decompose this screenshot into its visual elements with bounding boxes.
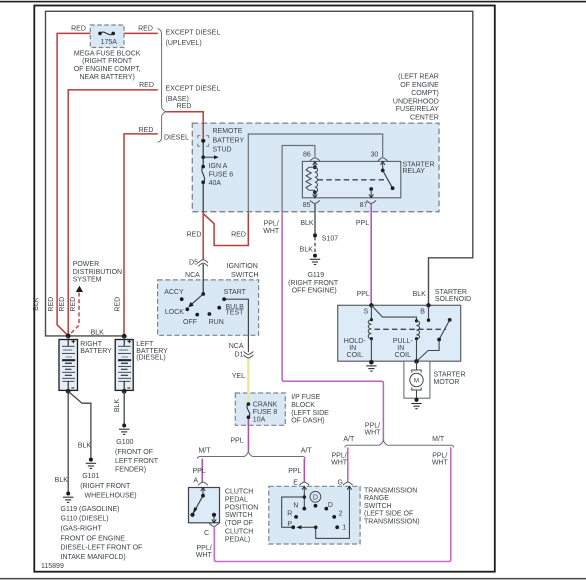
- wire PPL crank fuse to first split apex: [247, 417, 249, 451]
- solenoid actuator dashed link: [375, 328, 447, 330]
- transmission range switch box: [269, 486, 360, 544]
- svg-text:LOCK: LOCK: [165, 309, 184, 316]
- svg-text:ACCY: ACCY: [164, 289, 184, 296]
- motor ground junction: [414, 398, 418, 402]
- trans switch terminal E: [300, 482, 309, 510]
- wire GRY relay 30 feed inside box: [248, 134, 382, 214]
- svg-text:A: A: [193, 477, 198, 484]
- svg-text:FRONT OF ENGINE: FRONT OF ENGINE: [61, 535, 126, 542]
- wire RED fuse output below box to D5: [202, 212, 204, 259]
- svg-text:SWITCH: SWITCH: [225, 512, 253, 519]
- wire PPL first split to clutch A: [201, 459, 203, 482]
- wire BLK relay 85 to S107: [314, 204, 316, 235]
- starter motor symbol: [410, 361, 423, 399]
- svg-text:G101: G101: [82, 473, 99, 480]
- svg-text:BLK: BLK: [300, 220, 314, 227]
- svg-text:RUN: RUN: [209, 319, 224, 326]
- wire PPL relay 87 to solenoid S: [370, 204, 372, 305]
- wire RED brace output into fuse center: [166, 112, 204, 139]
- svg-text:(RIGHT FRONT: (RIGHT FRONT: [288, 280, 339, 287]
- ground G119/G110 engine: [63, 492, 73, 503]
- svg-text:E: E: [293, 480, 298, 487]
- trans switch contact R: [294, 515, 298, 519]
- wire PPL/WHT relay 86 to second split apex: [282, 214, 383, 441]
- wire GRY relay 86 feed inside box: [282, 146, 315, 214]
- svg-text:LEFT FRONT: LEFT FRONT: [115, 458, 159, 465]
- svg-text:STARTER: STARTER: [434, 372, 466, 379]
- svg-text:M/T: M/T: [432, 436, 445, 443]
- svg-text:PPL: PPL: [357, 291, 370, 298]
- svg-text:TRANSMISSION: TRANSMISSION: [364, 488, 417, 495]
- trans switch contact D: [324, 507, 328, 511]
- svg-text:RED: RED: [187, 232, 202, 239]
- svg-text:TRANSMISSION): TRANSMISSION): [364, 519, 420, 526]
- trans switch wiper to G route: [316, 486, 350, 538]
- svg-text:RED: RED: [59, 297, 66, 312]
- relay pin 87 terminal: [367, 187, 376, 203]
- svg-text:(FRONT OF: (FRONT OF: [115, 449, 153, 456]
- svg-text:BLOCK: BLOCK: [291, 402, 315, 409]
- svg-text:PEDAL): PEDAL): [225, 537, 250, 544]
- solenoid S terminal: [369, 303, 373, 307]
- svg-text:FUSE/RELAY: FUSE/RELAY: [396, 106, 439, 113]
- solenoid pull-in coil: [415, 319, 420, 361]
- svg-text:SOLENOID: SOLENOID: [435, 296, 471, 303]
- trans switch OD indicator circle: [310, 491, 321, 502]
- svg-text:I/P FUSE: I/P FUSE: [291, 394, 320, 401]
- wire BLK ignition D5 input: [202, 264, 204, 294]
- wire BLK right battery to G101: [68, 391, 91, 459]
- svg-text:RED: RED: [138, 26, 153, 33]
- svg-text:NCA: NCA: [185, 272, 200, 279]
- svg-text:(DIESEL): (DIESEL): [136, 355, 166, 362]
- svg-text:START: START: [224, 289, 247, 296]
- wire YEL D1 to crank fuse: [247, 358, 249, 404]
- connector D5: [199, 260, 208, 267]
- svg-text:RED: RED: [71, 26, 86, 33]
- trans switch wiper arrow at P: [296, 525, 317, 529]
- svg-text:RED: RED: [231, 232, 246, 239]
- svg-text:C: C: [204, 530, 209, 537]
- svg-text:POSITION: POSITION: [225, 505, 258, 512]
- svg-text:P: P: [287, 521, 292, 528]
- ignition contact off: [195, 313, 199, 317]
- svg-text:PPL: PPL: [230, 438, 243, 445]
- svg-text:BLK: BLK: [413, 291, 427, 298]
- relay pin 30 terminal: [378, 158, 387, 173]
- remote battery stud: [198, 136, 209, 147]
- svg-text:RED: RED: [48, 297, 55, 312]
- svg-text:OF DASH): OF DASH): [291, 418, 324, 425]
- svg-text:UNDERHOOD: UNDERHOOD: [393, 98, 439, 105]
- svg-text:WHEELHOUSE): WHEELHOUSE): [85, 493, 137, 500]
- svg-text:(RIGHT FRONT: (RIGHT FRONT: [80, 483, 131, 490]
- solenoid B contact stub: [427, 305, 430, 322]
- svg-text:G119 (GASOLINE): G119 (GASOLINE): [61, 506, 120, 513]
- svg-text:M: M: [414, 378, 419, 385]
- svg-text:MOTOR: MOTOR: [434, 379, 460, 386]
- svg-text:WHT: WHT: [263, 228, 280, 235]
- wire left battery positive stub: [123, 336, 125, 339]
- ignition switch rotor: [188, 292, 205, 307]
- svg-text:30: 30: [371, 152, 379, 159]
- relay pin 85 terminal: [310, 191, 319, 204]
- svg-text:PPL/: PPL/: [264, 221, 279, 228]
- wire RED mega fuse feed horizontal top: [57, 33, 90, 336]
- svg-text:(UPLEVEL): (UPLEVEL): [166, 40, 202, 47]
- svg-text:175A: 175A: [101, 39, 118, 46]
- svg-text:(GAS-RIGHT: (GAS-RIGHT: [61, 526, 103, 533]
- brace joining three red feeds: [158, 29, 166, 143]
- svg-text:YEL: YEL: [232, 373, 245, 380]
- node left battery positive: [122, 334, 127, 339]
- svg-text:SYSTEM: SYSTEM: [73, 277, 102, 284]
- svg-text:REMOTE: REMOTE: [213, 128, 243, 135]
- svg-text:RED: RED: [139, 127, 154, 134]
- svg-text:1: 1: [342, 524, 346, 531]
- wire RED dashed power distribution reference: [68, 293, 79, 336]
- svg-text:EXCEPT DIESEL: EXCEPT DIESEL: [166, 30, 221, 37]
- wire BLK battery positive cable loop (solenoid B to batteries): [46, 11, 473, 336]
- label hold-in coil: [344, 338, 366, 359]
- ground below hold-in coil: [366, 366, 376, 371]
- svg-text:DIESEL-LEFT FRONT OF: DIESEL-LEFT FRONT OF: [61, 544, 143, 551]
- svg-text:N: N: [293, 503, 298, 510]
- wire RED u-jog to starter relay 30 feed: [203, 213, 248, 246]
- svg-text:WHT: WHT: [365, 429, 382, 436]
- trans switch terminal G: [343, 482, 352, 490]
- ground G101: [86, 458, 96, 469]
- right battery: [59, 340, 78, 391]
- label G119 right front off engine: [288, 272, 339, 295]
- svg-text:RELAY: RELAY: [403, 168, 426, 175]
- svg-text:DISTRIBUTION: DISTRIBUTION: [73, 269, 122, 276]
- wire right battery positive stub: [67, 336, 69, 340]
- svg-text:OFF: OFF: [183, 319, 197, 326]
- ignition contact run: [208, 312, 212, 316]
- starter relay box: [302, 161, 400, 197]
- svg-text:PULL-: PULL-: [393, 338, 414, 345]
- bottom page rule: [0, 578, 586, 580]
- svg-text:MEGA FUSE BLOCK: MEGA FUSE BLOCK: [74, 50, 141, 57]
- wire PPL first split to trans E: [303, 459, 305, 482]
- svg-text:115899: 115899: [41, 563, 64, 570]
- solenoid switch blade: [417, 318, 452, 361]
- svg-text:STUD: STUD: [213, 146, 232, 153]
- svg-text:WHT: WHT: [196, 552, 213, 559]
- svg-text:NCA: NCA: [229, 343, 244, 350]
- svg-text:PPL/: PPL/: [197, 545, 212, 552]
- solenoid pull-in coil feed: [371, 305, 416, 321]
- svg-text:(LEFT SIDE: (LEFT SIDE: [291, 410, 329, 417]
- svg-text:IN: IN: [397, 345, 404, 352]
- mega fuse block box: [90, 25, 124, 48]
- label mega fuse block caption: [74, 50, 141, 81]
- svg-text:S107: S107: [322, 236, 338, 243]
- wire RED mega fuse output to brace (except diesel uplevel): [124, 32, 158, 34]
- svg-text:IGNITION: IGNITION: [227, 263, 258, 270]
- trans switch E to P contact route: [282, 497, 305, 527]
- svg-text:COMPT): COMPT): [411, 90, 439, 97]
- wire PPL/WHT second split m/t around to clutch C: [214, 447, 450, 561]
- svg-text:DIESEL: DIESEL: [164, 135, 189, 142]
- svg-text:PEDAL: PEDAL: [225, 496, 248, 503]
- svg-text:EXCEPT DIESEL: EXCEPT DIESEL: [166, 86, 221, 93]
- label pull-in coil: [393, 338, 414, 359]
- svg-text:NEAR BATTERY): NEAR BATTERY): [80, 74, 135, 81]
- svg-text:TEST: TEST: [226, 310, 245, 317]
- fuse 6 element: [201, 165, 205, 184]
- wire RED diesel: [124, 134, 158, 336]
- solenoid ground junction: [369, 360, 374, 365]
- svg-text:40A: 40A: [209, 180, 222, 187]
- relay coil resistor zigzag: [306, 167, 315, 190]
- clutch switch contact C: [209, 513, 218, 527]
- wire PPL/WHT second split to trans G: [347, 447, 349, 482]
- ignition contact accy: [180, 297, 184, 301]
- clutch pedal position switch box: [189, 488, 220, 523]
- svg-text:R: R: [287, 511, 292, 518]
- relay coil winding: [315, 167, 318, 192]
- svg-text:85: 85: [303, 202, 311, 209]
- svg-text:B: B: [420, 309, 425, 316]
- trans switch contact 2: [332, 515, 336, 519]
- svg-text:D5: D5: [189, 260, 198, 267]
- svg-text:OFF ENGINE): OFF ENGINE): [292, 288, 337, 295]
- svg-text:CRANK: CRANK: [253, 401, 278, 408]
- svg-text:(TOP OF: (TOP OF: [225, 520, 253, 527]
- underhood fuse/relay center box: [192, 123, 439, 212]
- svg-text:BATTERY: BATTERY: [213, 137, 245, 144]
- svg-text:RED: RED: [70, 297, 77, 312]
- relay pin 86 terminal: [310, 158, 319, 169]
- svg-text:IGN A: IGN A: [209, 163, 228, 170]
- svg-text:87: 87: [360, 202, 368, 209]
- svg-text:BLK: BLK: [114, 399, 121, 413]
- svg-text:CLUTCH: CLUTCH: [225, 528, 253, 535]
- svg-text:G100: G100: [116, 439, 133, 446]
- starter solenoid box: [338, 305, 461, 361]
- svg-text:SWITCH: SWITCH: [364, 503, 392, 510]
- i/p fuse block box: [235, 393, 285, 425]
- connector D1: [244, 351, 253, 358]
- junction and arrow below stud: [201, 155, 218, 159]
- svg-text:BLK: BLK: [91, 330, 105, 337]
- top page rule: [0, 1, 586, 3]
- svg-text:SWITCH: SWITCH: [231, 272, 259, 279]
- svg-text:IN: IN: [349, 345, 356, 352]
- svg-text:G119: G119: [307, 272, 324, 279]
- ground G100: [119, 424, 129, 435]
- svg-text:CENTER: CENTER: [410, 114, 439, 121]
- svg-text:RANGE: RANGE: [364, 495, 389, 502]
- trans switch contact OD: [314, 504, 318, 508]
- wire BLK stud to ign a fuse to box bottom: [202, 143, 204, 214]
- svg-text:D: D: [328, 502, 333, 509]
- svg-text:BLK: BLK: [33, 297, 40, 311]
- relay switch blade: [383, 170, 395, 190]
- svg-text:RED: RED: [177, 103, 192, 110]
- svg-text:POWER: POWER: [73, 261, 99, 268]
- ignition contact start: [222, 297, 226, 301]
- svg-text:PPL: PPL: [288, 468, 301, 475]
- svg-text:BLK: BLK: [55, 477, 69, 484]
- svg-text:10A: 10A: [253, 416, 266, 423]
- ground below starter motor: [411, 404, 421, 409]
- svg-text:M/T: M/T: [198, 447, 211, 454]
- svg-text:FUSE 8: FUSE 8: [253, 409, 278, 416]
- svg-text:HOLD-: HOLD-: [344, 338, 366, 345]
- ground G119 right front of engine: [310, 254, 320, 265]
- clutch switch blade with arrow: [190, 496, 203, 517]
- S107 splice: [313, 233, 317, 237]
- wire BLK ignition start output to D1: [224, 299, 248, 352]
- svg-text:INTAKE MANIFOLD): INTAKE MANIFOLD): [61, 554, 126, 561]
- svg-text:(LEFT REAR: (LEFT REAR: [398, 74, 439, 81]
- trans switch contact 1: [335, 525, 339, 529]
- diagram border frame: [34, 6, 495, 572]
- trans switch contact P: [291, 525, 295, 529]
- svg-text:(LEFT SIDE OF: (LEFT SIDE OF: [364, 511, 413, 518]
- node right battery positive: [66, 334, 71, 339]
- svg-text:PPL: PPL: [193, 468, 206, 475]
- svg-text:STARTER: STARTER: [435, 289, 467, 296]
- svg-text:OF ENGINE: OF ENGINE: [400, 82, 439, 89]
- starter motor enclosure: [404, 361, 430, 398]
- relay actuator dashed link: [318, 179, 385, 181]
- mega fuse 175A element: [98, 32, 115, 36]
- svg-text:S: S: [363, 309, 368, 316]
- svg-text:COIL: COIL: [395, 352, 411, 359]
- svg-text:FENDER): FENDER): [115, 466, 146, 473]
- svg-text:2: 2: [339, 511, 343, 518]
- svg-text:D1: D1: [235, 351, 244, 358]
- clutch switch terminal A: [198, 482, 207, 498]
- crank fuse 8 element: [247, 402, 251, 419]
- left battery: [115, 340, 133, 391]
- wire BLK dashed S107 to G119: [314, 237, 316, 253]
- power distribution arrow: [76, 286, 83, 292]
- svg-text:RED: RED: [139, 82, 154, 89]
- svg-text:CLUTCH: CLUTCH: [225, 488, 253, 495]
- svg-text:BLK: BLK: [300, 247, 314, 254]
- svg-text:G110 (DIESEL): G110 (DIESEL): [61, 516, 109, 523]
- svg-text:COIL: COIL: [347, 352, 363, 359]
- svg-text:A/T: A/T: [343, 436, 355, 443]
- wire BLK right battery to G119 engine ground: [67, 391, 69, 493]
- svg-text:A/T: A/T: [301, 447, 313, 454]
- svg-text:WHT: WHT: [331, 460, 348, 467]
- ignition contact lock: [185, 307, 189, 311]
- svg-text:BATTERY: BATTERY: [80, 348, 112, 355]
- ignition switch box: [158, 280, 259, 335]
- svg-text:G: G: [337, 480, 342, 487]
- ignition contact bulb test: [217, 306, 221, 310]
- node left battery negative: [122, 389, 127, 394]
- wire RED except diesel base: [68, 90, 158, 336]
- wire BLK left battery to G100: [123, 391, 125, 425]
- svg-text:PPL: PPL: [356, 220, 369, 227]
- svg-text:RED: RED: [114, 297, 121, 312]
- solenoid motor junction: [414, 359, 419, 364]
- node right battery negative: [66, 389, 71, 394]
- solenoid B terminal: [426, 303, 430, 307]
- svg-text:(RIGHT FRONT: (RIGHT FRONT: [82, 58, 133, 65]
- second split bracket a/t m/t: [345, 440, 454, 447]
- label underhood fuse relay center caption: [393, 74, 439, 122]
- first split bracket m/t a/t: [197, 452, 305, 459]
- svg-text:BLK: BLK: [78, 442, 92, 449]
- solenoid hold-in coil: [368, 305, 373, 362]
- svg-text:WHT: WHT: [432, 460, 449, 467]
- svg-text:D: D: [313, 495, 318, 502]
- svg-text:FUSE 6: FUSE 6: [209, 172, 234, 179]
- svg-text:86: 86: [303, 152, 311, 159]
- svg-text:OF ENGINE COMPT,: OF ENGINE COMPT,: [74, 66, 141, 73]
